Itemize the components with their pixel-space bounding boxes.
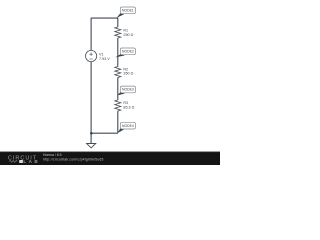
- node junction dot: [90, 132, 93, 135]
- resistor R1: [115, 27, 134, 38]
- wire bottom horizontal: [91, 132, 118, 134]
- node flag NODE2: [115, 48, 135, 57]
- ground: [87, 144, 96, 148]
- voltage source V1: [86, 50, 111, 61]
- svg-text:Homna / 8.5: Homna / 8.5: [43, 153, 62, 157]
- wire right rail segment 2: [117, 38, 119, 67]
- wire left rail upper: [90, 18, 92, 51]
- svg-text:R1: R1: [123, 29, 128, 33]
- wire top horizontal: [91, 17, 118, 19]
- node flag NODE1: [117, 7, 136, 18]
- svg-text:R2: R2: [123, 67, 128, 71]
- svg-text:85.3 Ω: 85.3 Ω: [123, 106, 134, 110]
- svg-text:NODE1: NODE1: [122, 9, 134, 13]
- node flag NODE3: [117, 86, 135, 95]
- svg-text:NODE4: NODE4: [122, 124, 134, 128]
- wire right rail segment 3: [117, 78, 119, 101]
- svg-text:250 Ω: 250 Ω: [123, 33, 133, 37]
- svg-text:http://circuitlab.com/c/p4tgh9: http://circuitlab.com/c/p4tgh9m5u65: [43, 157, 104, 161]
- svg-text:LAB: LAB: [23, 159, 40, 164]
- wire right rail segment 4: [117, 111, 119, 133]
- resistor R2: [115, 67, 134, 78]
- watermark bar: [0, 152, 220, 166]
- svg-text:R3: R3: [123, 101, 128, 105]
- wire left rail lower: [90, 62, 92, 144]
- CircuitLab logo: [8, 155, 40, 164]
- wire right rail segment 1: [117, 18, 119, 27]
- node flag NODE4: [118, 122, 136, 133]
- svg-text:350 Ω: 350 Ω: [123, 72, 133, 76]
- svg-text:NODE2: NODE2: [122, 50, 134, 54]
- resistor R3: [115, 100, 135, 111]
- svg-text:NODE3: NODE3: [122, 88, 134, 92]
- svg-text:7.93 V: 7.93 V: [99, 57, 110, 61]
- svg-text:V1: V1: [99, 52, 104, 56]
